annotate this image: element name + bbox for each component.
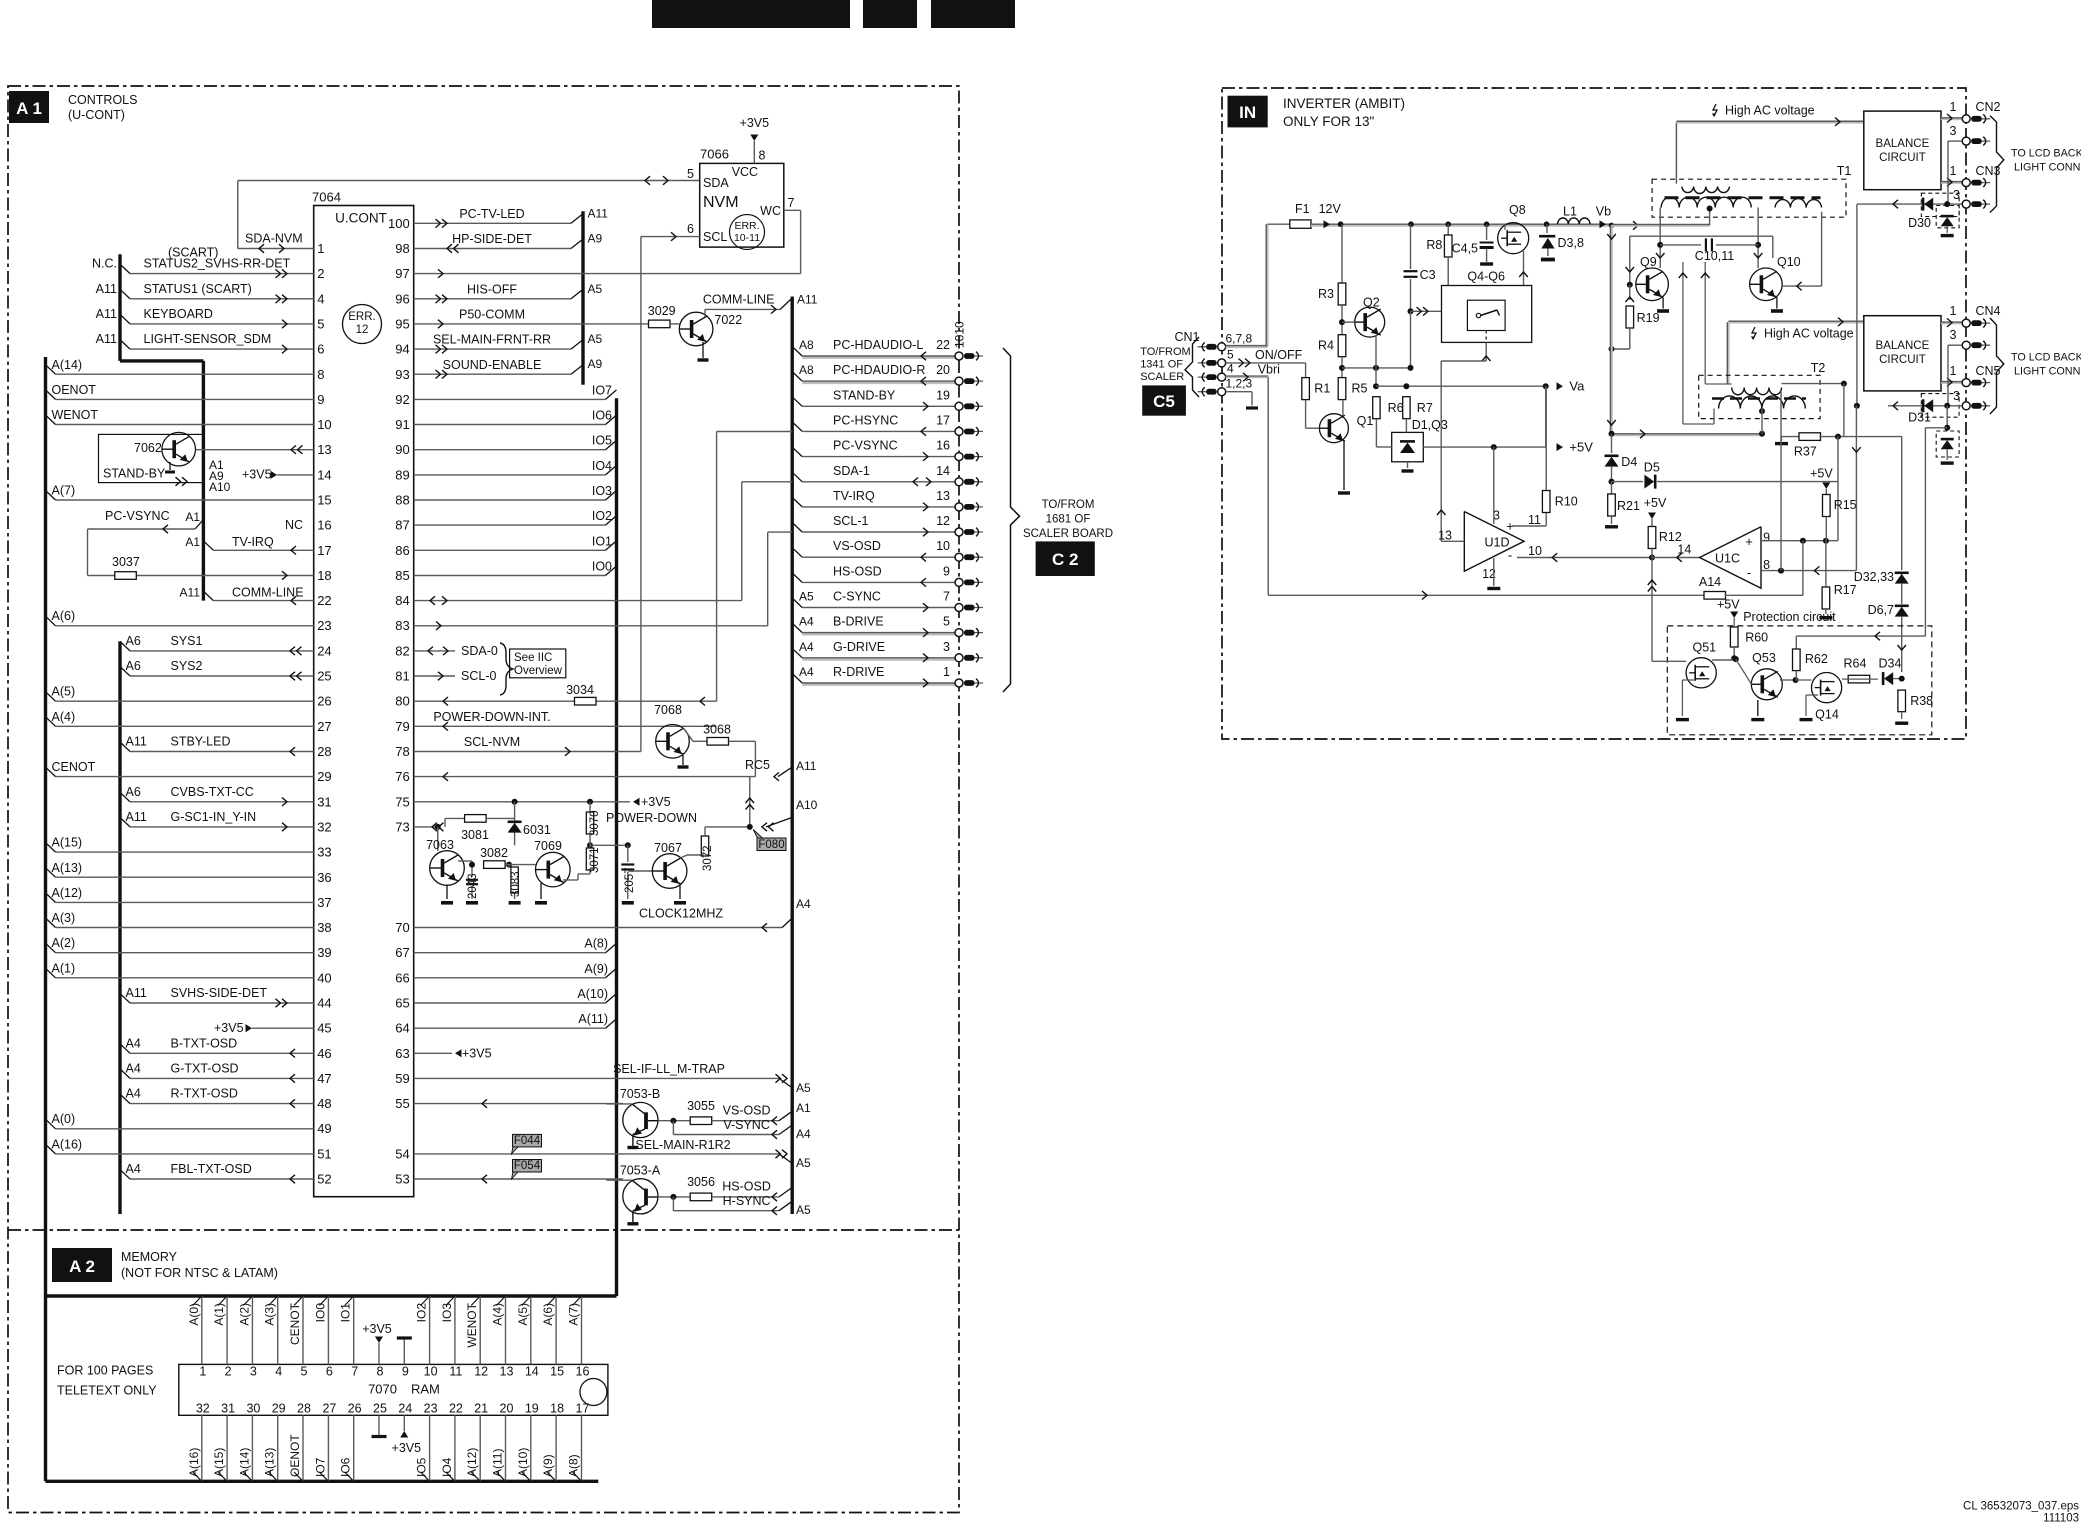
wire SYS2 to pin 25 [120,667,130,677]
wire R6 to D1,Q3 [1375,419,1377,447]
IC U.CONT 7064 body [314,206,414,1197]
wire 12V feed from CN1 [1226,345,1268,348]
svg-text:52: 52 [317,1172,331,1187]
wire T2 to R37 node [1843,384,1845,437]
connector wire G-DRIVE pin 3 [792,648,802,658]
svg-text:19: 19 [936,388,950,402]
svg-text:2: 2 [317,266,324,281]
wire Q14 to R64 [1842,678,1848,680]
svg-text:1,2,3: 1,2,3 [1226,377,1253,391]
svg-text:14: 14 [1677,543,1691,557]
wire SYS1 to pin 24 [120,641,130,651]
svg-text:A 2: A 2 [69,1257,95,1276]
svg-text:A4: A4 [126,1087,141,1101]
svg-text:+3V5: +3V5 [462,1046,492,1060]
wire SEL-MAIN-R1R2 row 54 [414,1153,779,1155]
svg-text:65: 65 [395,996,409,1011]
svg-text:A 1: A 1 [16,99,42,118]
svg-text:A(9): A(9) [541,1454,555,1477]
svg-text:A(7): A(7) [567,1303,581,1326]
svg-text:15: 15 [550,1365,564,1379]
C5 board ref box [1142,385,1186,415]
svg-text:5: 5 [317,316,324,331]
svg-text:A6: A6 [126,659,141,673]
transistor Q10 [1750,268,1783,301]
rail after L1 [1600,220,1607,228]
svg-text:88: 88 [395,493,409,508]
svg-text:SDA-0: SDA-0 [461,644,498,658]
wire Q2 collector to R6 node [1375,335,1377,386]
wire IO5 from pin 90 [414,449,606,451]
svg-text:G-SC1-IN_Y-IN: G-SC1-IN_Y-IN [171,810,257,824]
7067 emitter ground [679,884,681,899]
svg-text:IO3: IO3 [592,484,612,498]
wire D30 to left vertical [1857,203,1888,205]
bottom return rail [1612,434,1763,437]
brace CN2/CN3 [1990,116,2004,213]
svg-text:A11: A11 [180,586,201,600]
svg-text:STBY-LED: STBY-LED [171,735,231,749]
svg-text:D32,33: D32,33 [1854,570,1894,584]
svg-text:SEL-MAIN-FRNT-RR: SEL-MAIN-FRNT-RR [433,333,551,347]
inverter section border (dash-dot) [1222,88,1966,739]
wire pin 73 stub [414,826,438,828]
wire H-SYNC [672,1197,674,1211]
svg-text:SCL-0: SCL-0 [461,669,496,683]
svg-text:9: 9 [317,392,324,407]
svg-text:7064: 7064 [312,190,341,205]
connector CN1 pin 1,2,3 [1198,391,1217,393]
svg-text:14: 14 [936,464,950,478]
A1 section label [9,91,49,123]
brace IIC [500,643,513,695]
double chevron up [746,798,755,803]
svg-text:49: 49 [317,1121,331,1136]
svg-text:29: 29 [272,1402,286,1416]
svg-text:A(14): A(14) [237,1448,251,1477]
diode 6031 [514,802,516,846]
svg-text:A(0): A(0) [52,1112,76,1126]
svg-text:78: 78 [395,744,409,759]
svg-text:SCALER BOARD: SCALER BOARD [1023,528,1113,540]
T1 primary coil [1682,187,1730,194]
svg-text:A11: A11 [96,282,117,296]
wire +5V row [1423,446,1545,448]
svg-text:A11: A11 [797,293,818,307]
wire A(10) from pin 65 [414,1002,606,1004]
wire VS-OSD [712,1120,779,1122]
svg-text:WC: WC [760,204,781,218]
svg-text:10: 10 [1528,544,1542,558]
svg-text:IO5: IO5 [415,1457,429,1477]
svg-text:7022: 7022 [714,313,742,327]
svg-text:46: 46 [317,1046,331,1061]
svg-text:P50-COMM: P50-COMM [459,308,525,322]
svg-text:CN1: CN1 [1174,330,1199,344]
wire A(7) to pin 15 [46,491,56,501]
svg-text:3029: 3029 [648,304,676,318]
svg-text:IO6: IO6 [592,409,612,423]
svg-text:4: 4 [275,1365,282,1379]
wire CENOT to pin 29 [46,767,56,777]
svg-text:VS-OSD: VS-OSD [723,1104,771,1118]
svg-text:PC-VSYNC: PC-VSYNC [105,509,170,523]
svg-text:14: 14 [317,467,331,482]
svg-text:A11: A11 [126,735,147,749]
wire SCL-0 pin 81 [414,675,455,677]
svg-text:11: 11 [449,1365,462,1379]
resistor R4 [1338,335,1346,357]
label Va [1557,382,1564,390]
svg-text:HS-OSD: HS-OSD [833,564,882,578]
svg-text:A(12): A(12) [465,1448,479,1477]
wire T2 drive winding to Q10 side [1704,262,1706,384]
IO bus [615,398,618,1296]
diode D34 [1884,672,1893,685]
svg-text:13: 13 [317,442,331,457]
svg-text:IO1: IO1 [339,1303,353,1323]
resistor 3037 [87,529,89,576]
svg-text:OENOT: OENOT [288,1434,302,1477]
svg-text:A(8): A(8) [567,1454,581,1477]
U1D pin 12 ground [1493,558,1495,586]
svg-text:3037: 3037 [112,555,140,569]
svg-text:D30: D30 [1908,216,1931,230]
svg-text:8: 8 [1763,558,1770,572]
svg-text:100: 100 [388,216,410,231]
svg-text:8: 8 [377,1365,384,1379]
transistor 7067 [628,870,653,872]
svg-text:TV-IRQ: TV-IRQ [833,489,875,503]
wire STATUS2_SVHS-RR-DET to pin 2 [120,264,130,274]
wire A(4) to pin 27 [46,717,56,727]
svg-text:C3: C3 [1420,268,1436,282]
svg-text:86: 86 [395,543,409,558]
wire SCL-NVM row 78 [414,751,641,753]
bus A6/A11 upper segment [118,254,121,361]
capacitor C10,11 [1660,244,1701,246]
7053-B collector node [658,1120,690,1122]
svg-text:STAND-BY: STAND-BY [103,467,166,481]
svg-text:A(11): A(11) [578,1012,608,1026]
Q10 emitter ground [1776,297,1778,308]
wire PC-TV-LED from pin 100 [414,222,571,224]
Q53 emitter ground [1757,700,1759,716]
wire A(3) to pin 38 [46,918,56,928]
wire Q10 collector to T1 [1757,208,1759,269]
transistor Q2 [1355,307,1385,337]
svg-text:SDA: SDA [703,176,729,190]
T1 secondary right coil [1775,199,1822,208]
svg-text:10: 10 [936,539,950,553]
diode D5 [1612,481,1644,483]
7068 emitter ground [682,754,684,765]
svg-text:IO5: IO5 [592,434,612,448]
svg-text:A9: A9 [588,357,603,371]
resistor R62 [1795,636,1797,649]
7069 collector to 3071 [563,879,578,881]
wire R6/R7 supply row [1376,385,1546,387]
svg-text:PC-TV-LED: PC-TV-LED [459,207,524,221]
svg-text:SDA-NVM: SDA-NVM [245,232,303,246]
svg-text:D3,8: D3,8 [1558,236,1584,250]
D31 dashed box [1921,394,1959,418]
svg-text:(SCART): (SCART) [168,246,218,260]
svg-text:17: 17 [317,543,331,558]
wire Q2 base from R3/R4 node [1341,305,1343,335]
svg-text:HS-OSD: HS-OSD [722,1180,771,1194]
svg-text:+5V: +5V [1717,598,1740,612]
flag F044 [513,1134,542,1147]
svg-text:Q9: Q9 [1640,255,1657,269]
U1D pin 13 wire [1441,540,1464,542]
connector pin 20 of 1010 [964,380,983,382]
capacitor C3 [1410,224,1412,269]
wire B-TXT-OSD to pin 46 [120,1044,130,1054]
CN2 pin1 wire [1941,118,1962,121]
transistor Q9 [1636,268,1669,301]
svg-text:A4: A4 [799,615,814,629]
U1C pin 8 row [1761,570,1856,572]
NVM 7066 box [700,163,784,247]
wire D4 to D5 node [1611,466,1613,482]
wire C3 to Q4-Q6 [1408,308,1414,314]
wire R62 top row [1796,635,1925,637]
svg-text:48: 48 [317,1096,331,1111]
wire D31 node to protection [1925,427,1947,429]
brace CN4/CN5 [1990,318,2004,414]
svg-text:A1: A1 [185,510,200,524]
svg-text:D6,7: D6,7 [1868,603,1894,617]
diode D31 horizontal [1888,405,1962,407]
svg-text:54: 54 [395,1146,409,1161]
svg-text:A11: A11 [588,206,609,220]
svg-text:5: 5 [943,615,950,629]
stand-by output chevrons [182,477,187,486]
wire R-TXT-OSD to pin 48 [120,1094,130,1104]
wire A(5) to pin 26 [46,692,56,702]
resistor R1 [1302,378,1310,400]
svg-text:See IIC: See IIC [514,652,552,664]
label High AC voltage (top) [1713,104,1717,116]
T2 bottom coil [1719,396,1806,409]
svg-text:A4: A4 [126,1162,141,1176]
svg-text:82: 82 [395,643,409,658]
svg-text:28: 28 [297,1402,311,1416]
svg-text:89: 89 [395,467,409,482]
svg-text:STAND-BY: STAND-BY [833,388,896,402]
svg-text:FBL-TXT-OSD: FBL-TXT-OSD [171,1162,252,1176]
svg-text:Va: Va [1569,379,1585,394]
svg-text:IO4: IO4 [440,1457,454,1477]
7022 emitter to ground [702,342,704,358]
svg-text:91: 91 [395,417,409,432]
svg-text:A4: A4 [799,665,814,679]
capacitor 2043 [471,861,473,877]
wire CN2-3 to CN3-3 link [1947,141,1949,204]
svg-text:R17: R17 [1834,583,1857,597]
resistor 3068 [707,738,729,746]
wire pin 53 to 7053-A base [414,1178,623,1180]
wire pin 76 [414,776,756,778]
R12 node down chevrons [1651,558,1653,625]
svg-text:6031: 6031 [523,823,551,837]
RAM 7070 box [179,1364,608,1415]
svg-text:3068: 3068 [703,723,731,737]
wire CN4-3 to CN5-3 link [1947,345,1949,406]
svg-text:70: 70 [395,920,409,935]
svg-text:+3V5: +3V5 [392,1441,422,1455]
zener D4 [1611,434,1613,453]
svg-text:9: 9 [402,1365,409,1379]
svg-text:LIGHT CONN.: LIGHT CONN. [2014,162,2081,174]
svg-text:23: 23 [424,1402,438,1416]
7053-A ground [627,1222,638,1225]
connector wire VS-OSD pin 10 [792,548,802,558]
resistor 3083 [506,862,512,868]
wire +3V5 row 75 [414,801,630,803]
svg-text:A10: A10 [209,480,231,494]
connector wire B-DRIVE pin 5 [792,623,802,633]
svg-text:3072: 3072 [702,845,714,871]
T2 core dash [1712,397,1806,400]
wire V-SYNC [672,1121,674,1135]
svg-text:4: 4 [317,291,324,306]
wire pin 55 to 7053-B base [414,1103,623,1105]
connector CN2 pin 3 [1971,140,1990,142]
wire A(1) to pin 40 [46,968,56,978]
svg-text:Q51: Q51 [1693,641,1717,655]
svg-text:98: 98 [395,241,409,256]
svg-text:7068: 7068 [654,703,682,717]
wire LIGHT-SENSOR_SDM to pin 6 [120,340,130,350]
svg-text:TELETEXT ONLY: TELETEXT ONLY [57,1384,157,1398]
svg-text:CVBS-TXT-CC: CVBS-TXT-CC [171,785,254,799]
svg-text:53: 53 [395,1172,409,1187]
svg-text:STATUS1 (SCART): STATUS1 (SCART) [144,282,252,296]
wire SDA-NVM to pin 1 [237,181,239,249]
wire pin 13 to 7062 collector [196,449,314,451]
resistor R21 [1611,482,1613,494]
wire +3V5 pin 63 [414,1052,452,1054]
svg-text:A4: A4 [796,1127,811,1141]
svg-text:A1: A1 [185,535,200,549]
svg-text:SCL-NVM: SCL-NVM [464,735,520,749]
svg-text:A5: A5 [588,332,603,346]
wire IO6 from pin 91 [414,424,606,426]
svg-text:A(5): A(5) [516,1303,530,1326]
connector wire SDA-1 pin 14 [792,472,802,482]
svg-text:25: 25 [317,669,331,684]
U1C feedback vertical [1802,541,1804,596]
wire A(8) from pin 67 [414,952,606,954]
svg-text:V-SYNC: V-SYNC [723,1118,770,1132]
svg-text:VS-OSD: VS-OSD [833,539,881,553]
resistor 3056 [690,1193,712,1201]
svg-text:A(1): A(1) [52,961,76,975]
svg-text:MEMORY: MEMORY [121,1250,178,1264]
connector wire C-SYNC pin 7 [792,598,802,608]
svg-text:A(3): A(3) [263,1303,277,1326]
T2 feed line [1727,322,1730,384]
svg-text:92: 92 [395,392,409,407]
wire IO7 from pin 92 [414,398,606,400]
svg-text:1: 1 [1950,304,1957,318]
resistor R15 [1823,495,1831,517]
svg-text:A(10): A(10) [516,1448,530,1477]
svg-text:R12: R12 [1659,530,1682,544]
svg-text:IO2: IO2 [592,509,612,523]
svg-text:F054: F054 [514,1160,541,1172]
section border A1/A2 (dash-dot) [8,86,959,1513]
svg-text:PC-VSYNC: PC-VSYNC [833,439,898,453]
svg-text:1: 1 [943,665,950,679]
Q10 base wire from right [1782,285,1822,287]
svg-text:Vb: Vb [1596,205,1611,219]
svg-text:27: 27 [317,719,331,734]
D1,Q3 ground [1407,462,1409,468]
svg-text:7067: 7067 [654,841,682,855]
svg-text:A9: A9 [588,232,603,246]
svg-text:IO3: IO3 [440,1303,454,1323]
connector CN2 pin 1 [1971,118,1990,120]
svg-text:+: + [1745,534,1753,549]
svg-text:+3V5: +3V5 [242,468,272,482]
svg-text:D31: D31 [1908,411,1931,425]
svg-text:IO1: IO1 [592,534,612,548]
svg-text:59: 59 [395,1071,409,1086]
7053-A collector node [658,1196,690,1198]
brace CN1 [1185,337,1199,397]
svg-text:+5V: +5V [1810,467,1833,481]
svg-text:A(14): A(14) [52,358,83,372]
svg-text:BALANCE: BALANCE [1876,138,1930,150]
svg-text:A14: A14 [1699,575,1721,589]
svg-text:(NOT FOR NTSC & LATAM): (NOT FOR NTSC & LATAM) [121,1266,278,1280]
bus x203 segment [202,361,205,601]
svg-text:24: 24 [398,1402,412,1416]
C2 board ref box [1036,541,1095,576]
svg-text:COMM-LINE: COMM-LINE [703,293,775,307]
connector wire PC-HSYNC pin 17 [792,422,802,432]
svg-text:TO LCD BACK-: TO LCD BACK- [2011,352,2081,364]
svg-text:POWER-DOWN: POWER-DOWN [606,811,697,825]
svg-text:B-DRIVE: B-DRIVE [833,615,884,629]
svg-text:22: 22 [317,593,331,608]
svg-text:6: 6 [687,222,694,236]
svg-text:Q8: Q8 [1509,203,1526,217]
svg-text:NVM: NVM [703,194,739,211]
svg-text:19: 19 [525,1402,539,1416]
svg-text:D1,Q3: D1,Q3 [1412,418,1448,432]
svg-text:A11: A11 [96,332,117,346]
svg-text:12: 12 [936,514,950,528]
right label bus A11/A9/A5 [581,211,584,384]
U1D pin 3 wire [1493,447,1495,524]
svg-text:LIGHT-SENSOR_SDM: LIGHT-SENSOR_SDM [144,332,272,346]
svg-text:+3V5: +3V5 [641,795,671,809]
mosfet Q51 [1686,658,1716,688]
svg-text:4: 4 [1227,362,1234,376]
wire pin 84 to SDA-1 [414,600,742,602]
svg-text:+3V5: +3V5 [214,1021,244,1035]
wire IO4 from pin 89 [414,474,606,476]
fuse F1 [1267,223,1290,225]
svg-text:26: 26 [317,694,331,709]
connector pin 5 of 1010 [964,632,983,634]
wire SEL-MAIN-FRNT-RR from pin 94 [414,348,571,350]
svg-text:L1: L1 [1563,205,1577,219]
